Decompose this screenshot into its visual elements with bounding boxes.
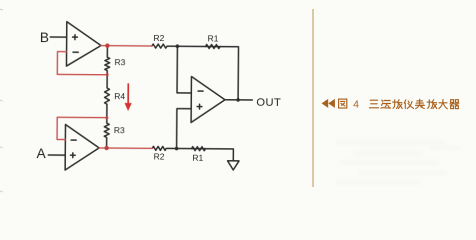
svg-text:R2: R2	[154, 151, 165, 161]
svg-text:A: A	[37, 146, 47, 161]
svg-text:B: B	[40, 30, 49, 45]
svg-text:R4: R4	[114, 91, 125, 101]
svg-text:R1: R1	[208, 33, 219, 43]
svg-text:4: 4	[353, 99, 359, 111]
svg-text:OUT: OUT	[256, 97, 281, 109]
svg-text:R1: R1	[192, 153, 203, 163]
svg-text:R3: R3	[115, 57, 126, 67]
svg-text:R2: R2	[153, 33, 164, 43]
svg-text:R3: R3	[114, 125, 125, 135]
